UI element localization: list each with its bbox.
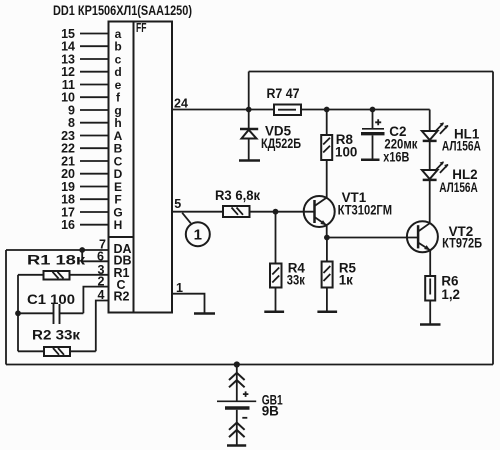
riser to top rail xyxy=(248,72,250,110)
node dot pin7/pin6 xyxy=(79,247,85,253)
pin 1 wire xyxy=(172,294,205,313)
pin 2 wire xyxy=(83,287,108,314)
bottom rail xyxy=(6,364,493,366)
svg-text:16: 16 xyxy=(61,218,75,232)
svg-text:х16В: х16В xyxy=(383,150,409,165)
ground bar VD5 xyxy=(239,159,260,162)
svg-text:C1 100: C1 100 xyxy=(27,292,75,307)
pin 7 wire xyxy=(6,249,109,251)
svg-text:R2: R2 xyxy=(114,290,130,304)
resistor R6 xyxy=(425,274,460,325)
left pin numbers xyxy=(61,27,75,232)
svg-text:1: 1 xyxy=(176,281,183,295)
svg-text:АЛ156А: АЛ156А xyxy=(442,139,481,154)
capacitor C1 xyxy=(18,292,83,324)
ground bar R5 xyxy=(317,311,337,314)
svg-text:КТ3102ГМ: КТ3102ГМ xyxy=(338,203,393,218)
pin 6 wire xyxy=(82,250,108,261)
wire HL2 to VT2 collector xyxy=(429,181,431,223)
wire R3 to VT1 base xyxy=(250,211,315,213)
svg-text:H: H xyxy=(114,218,123,232)
svg-text:DD1 КР1506ХЛ1(SAA1250): DD1 КР1506ХЛ1(SAA1250) xyxy=(53,2,192,18)
wire HL1 to HL2 xyxy=(429,142,431,171)
svg-text:5: 5 xyxy=(174,197,181,211)
right border wire xyxy=(492,72,494,365)
svg-text:33к: 33к xyxy=(287,272,305,287)
left border wire xyxy=(5,250,7,365)
wire to VT2 base xyxy=(327,237,418,239)
ground bar pin1 xyxy=(194,312,215,315)
resistor R1 xyxy=(18,253,109,280)
resistor R4 xyxy=(270,260,305,311)
pin 4 wire xyxy=(96,301,109,352)
svg-text:1,2: 1,2 xyxy=(441,287,460,302)
svg-text:КТ972Б: КТ972Б xyxy=(442,236,482,251)
svg-text:1к: 1к xyxy=(339,272,353,287)
transistor VT1 xyxy=(304,190,392,227)
svg-text:R1 18к: R1 18к xyxy=(27,253,85,268)
resistor R7 xyxy=(267,86,302,115)
lower-left pin numbers 7 6 3 2 4 xyxy=(97,237,106,301)
node dot supply/VD5 xyxy=(246,107,252,113)
LED HL1 xyxy=(422,122,481,153)
segment letters a..H xyxy=(113,27,122,232)
resistor R5 xyxy=(322,238,357,312)
svg-text:FF: FF xyxy=(136,21,147,35)
svg-text:24: 24 xyxy=(174,97,188,111)
node dot R4/base xyxy=(273,209,279,215)
svg-text:R3 6,8к: R3 6,8к xyxy=(215,188,260,203)
node dot battery xyxy=(234,361,240,367)
pin 5 wire xyxy=(172,211,223,213)
svg-text:КД522Б: КД522Б xyxy=(261,136,301,151)
battery GB1 xyxy=(217,365,283,446)
resistor R2 xyxy=(18,328,96,357)
left pin wires 15..16 xyxy=(80,34,109,225)
IC U/DD1 body xyxy=(109,21,173,313)
node dot R8 top xyxy=(324,107,330,113)
resistor R8 xyxy=(321,110,357,198)
node dot C2 top xyxy=(370,107,376,113)
LED HL2 xyxy=(422,161,478,195)
wire VT1 emitter down xyxy=(326,225,328,237)
ground bar R6 xyxy=(420,323,441,326)
svg-text:АЛ156А: АЛ156А xyxy=(439,180,478,195)
svg-text:1: 1 xyxy=(194,227,202,244)
capacitor C2 xyxy=(361,110,418,165)
ground bar R4 xyxy=(264,311,284,314)
wire R7 to HL drop xyxy=(301,109,430,111)
node dot emitter/R5/VT2 base xyxy=(324,235,330,241)
wire VT2 emitter to R6 xyxy=(429,250,431,276)
node 1 callout circle xyxy=(182,213,210,246)
diode VD5 xyxy=(240,110,301,160)
svg-text:9В: 9В xyxy=(262,404,279,419)
svg-text:R7 47: R7 47 xyxy=(267,86,300,101)
node dot C1 left xyxy=(15,310,21,316)
svg-text:R2 33к: R2 33к xyxy=(32,328,80,343)
resistor R3 xyxy=(215,188,260,217)
svg-text:100: 100 xyxy=(335,145,357,160)
transistor VT2 xyxy=(407,221,483,252)
pin labels DA DB R1 C R2 xyxy=(114,242,132,304)
pin 24 wire xyxy=(172,109,274,111)
left feedback vertical xyxy=(17,275,19,352)
ground bar C2 xyxy=(361,159,380,162)
wire HL drop top xyxy=(429,110,431,132)
top supply rail xyxy=(249,71,493,73)
wire down to R4 xyxy=(275,212,277,264)
